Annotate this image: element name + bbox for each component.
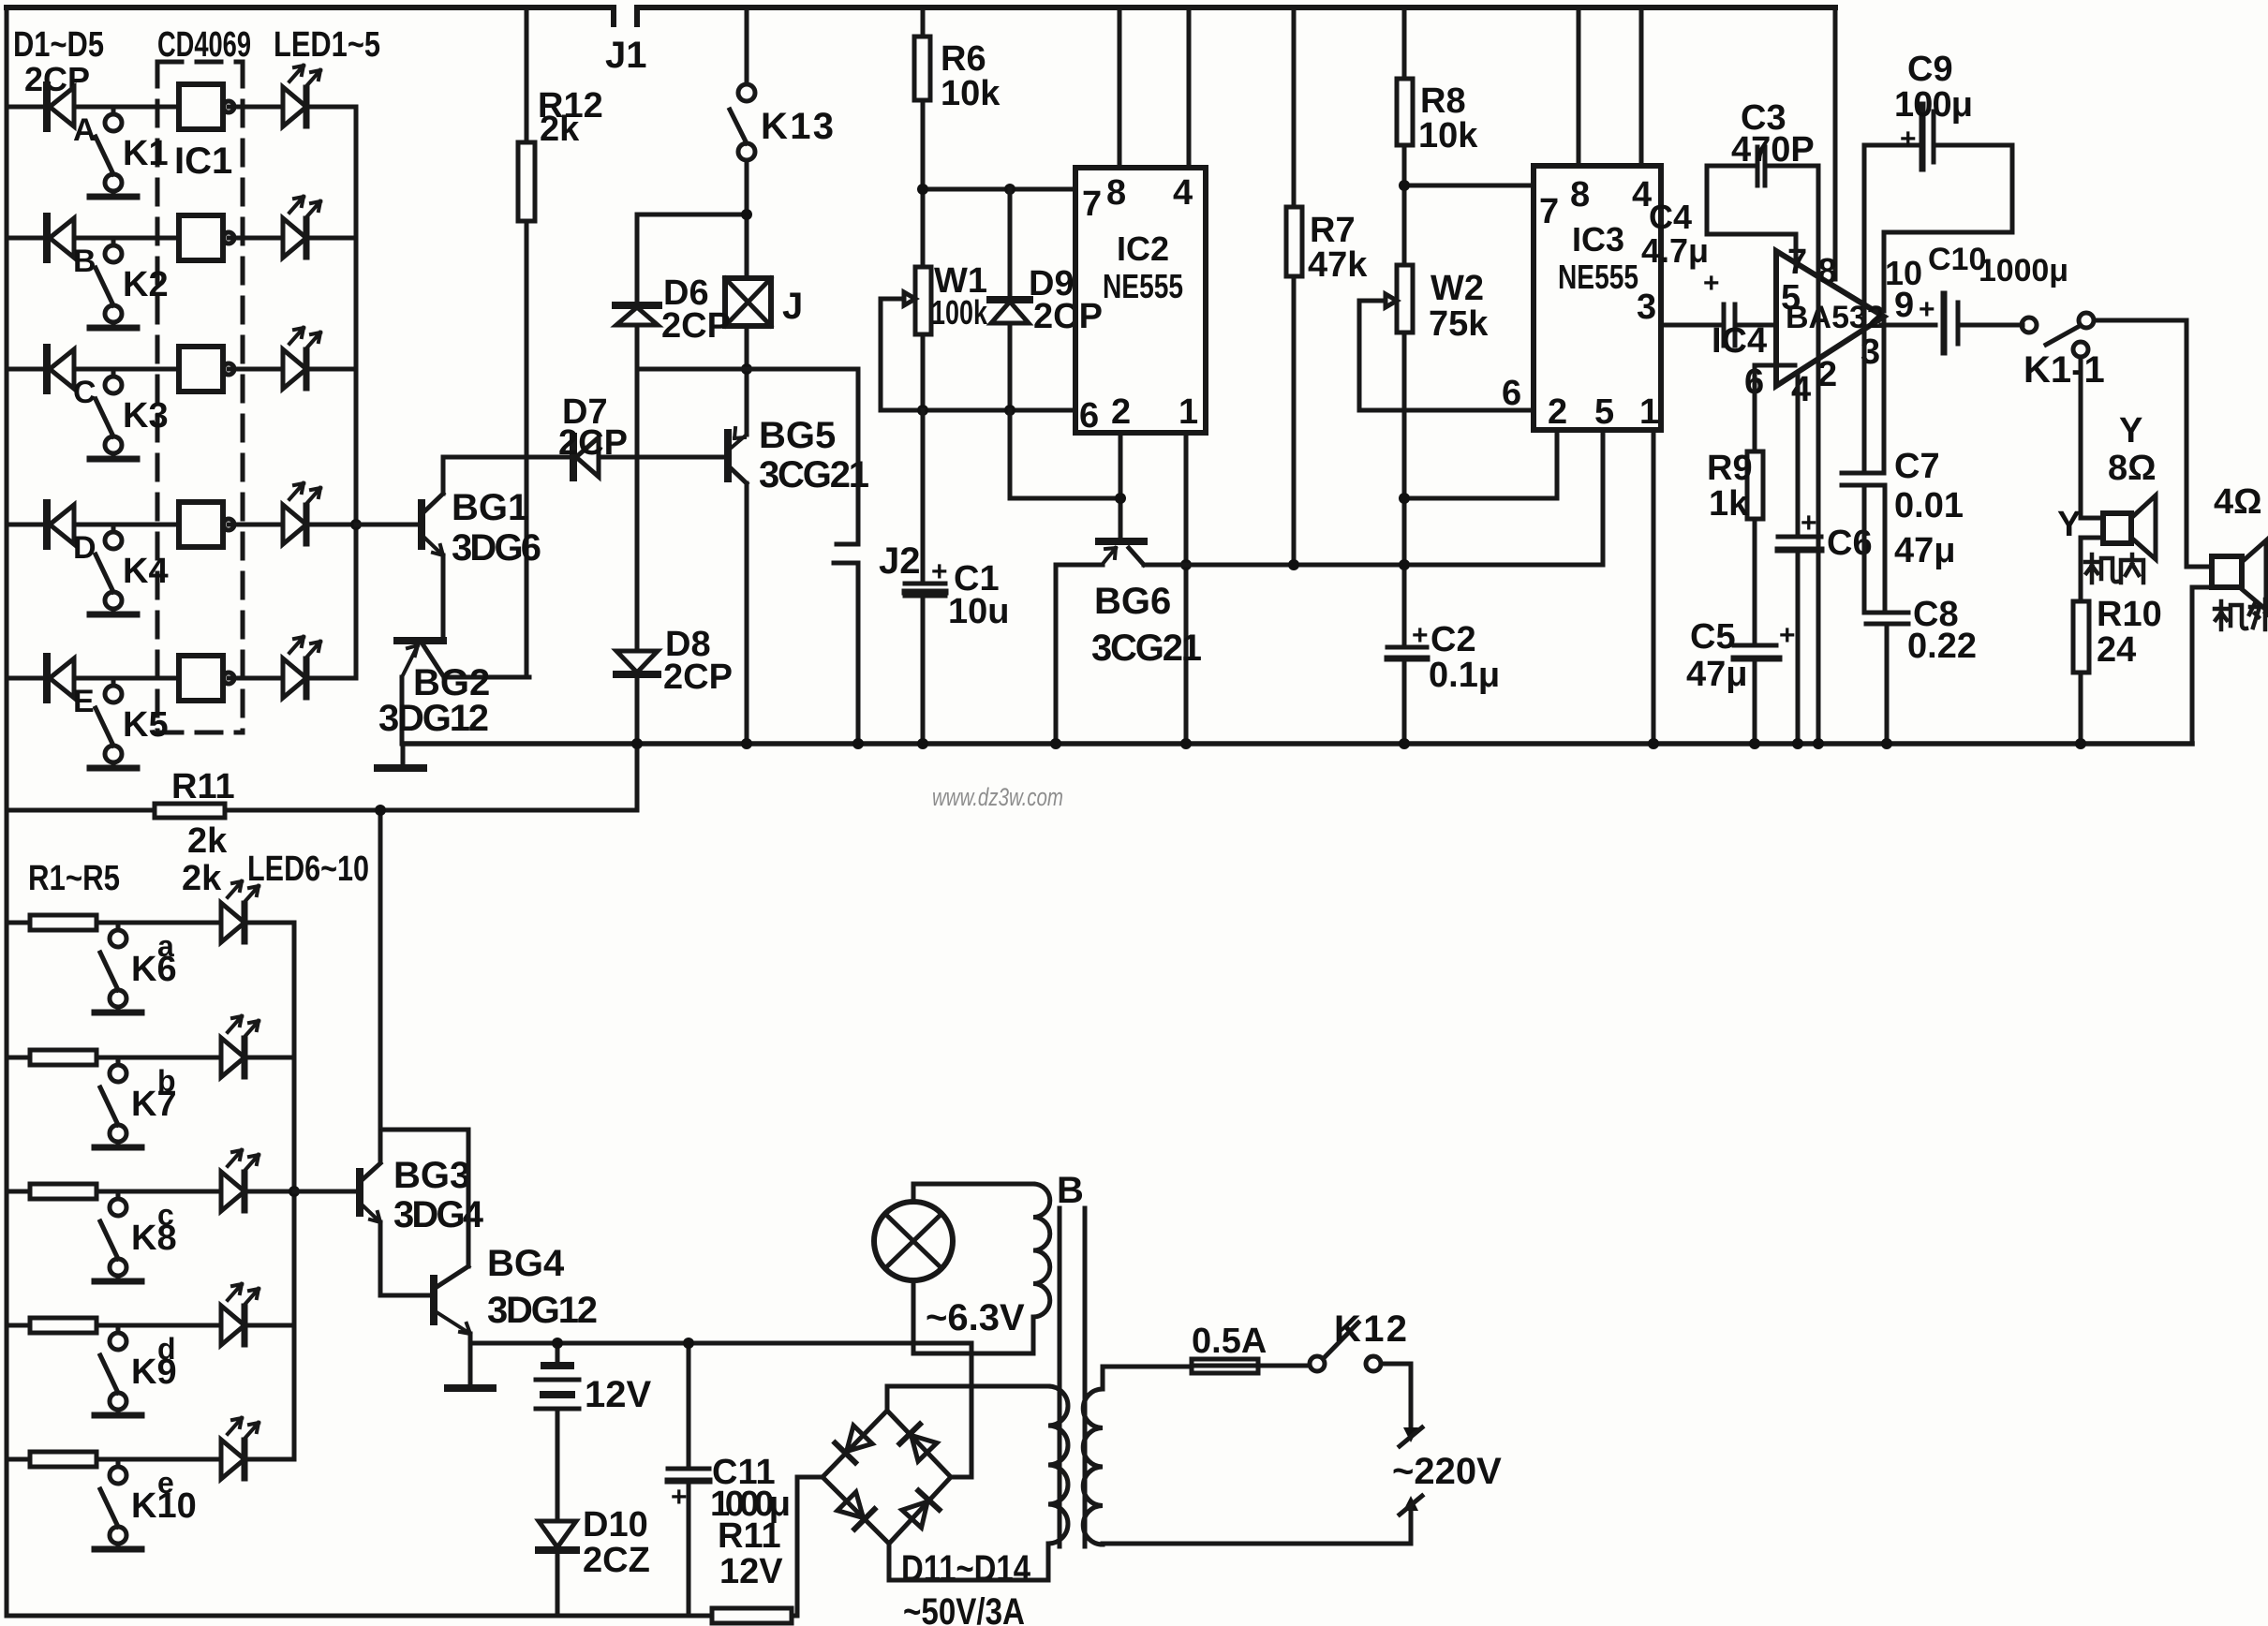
svg-text:a: a (157, 929, 174, 963)
relay coil J (725, 278, 771, 326)
svg-text:J2: J2 (879, 540, 921, 582)
LED9 (221, 1284, 259, 1345)
switch K4 (90, 525, 137, 614)
wire top rail drop to BA532 pin8 (1833, 7, 1838, 279)
svg-text:3CG21: 3CG21 (1091, 628, 1202, 669)
svg-text:K13: K13 (761, 106, 834, 147)
capacitor C11 1000u (687, 1343, 691, 1469)
capacitor C2 0.1u (1387, 647, 1427, 744)
transistor BG6 3CG21 (1099, 538, 1144, 545)
LED8 (221, 1150, 259, 1211)
wire LED6-10 bus (292, 923, 297, 1459)
potentiometer W2 75k (1397, 265, 1413, 333)
svg-text:D1~D5: D1~D5 (13, 25, 104, 65)
svg-text:C5: C5 (1690, 617, 1736, 657)
transistor BG2 3DG12 (397, 637, 443, 644)
svg-text:4Ω: 4Ω (2214, 482, 2262, 522)
svg-text:A: A (73, 112, 96, 148)
svg-text:2CP: 2CP (661, 306, 731, 346)
svg-text:D11~D14: D11~D14 (901, 1548, 1031, 1589)
LED3 (283, 328, 320, 389)
svg-text:1000μ: 1000μ (1979, 253, 2068, 288)
svg-text:K5: K5 (123, 705, 169, 745)
LED10 (221, 1418, 259, 1479)
svg-text:7: 7 (1539, 192, 1559, 231)
wire IC4 pin9 out (1881, 323, 1935, 328)
wire K1-1 to outer speaker (2094, 320, 2212, 567)
svg-text:12V: 12V (719, 1552, 783, 1591)
diode D12 (899, 1425, 937, 1462)
svg-text:0.01: 0.01 (1894, 486, 1964, 525)
svg-text:K3: K3 (123, 396, 169, 436)
wire D6 bottom row (637, 325, 858, 369)
svg-text:R9: R9 (1707, 449, 1753, 488)
svg-text:c: c (157, 1198, 174, 1232)
op-amp U1 IC4 BA532 (1776, 251, 1884, 386)
wire row A (7, 105, 356, 110)
switch K3 (90, 369, 137, 459)
wire row e (7, 1457, 294, 1462)
switch K10 (95, 1459, 141, 1549)
op-amp U IC2 NE555 box (1075, 168, 1206, 433)
transformer winding 50V (1048, 1386, 1068, 1544)
wire row a (7, 921, 294, 925)
LED7 (221, 1016, 259, 1077)
svg-text:5: 5 (1594, 392, 1614, 432)
svg-text:D: D (73, 530, 96, 566)
speaker 4ohm outer (2212, 556, 2242, 587)
svg-text:12V: 12V (585, 1374, 651, 1415)
svg-text:~220V: ~220V (1392, 1451, 1502, 1492)
zener R11 12V (712, 1608, 792, 1623)
svg-text:LED6~10: LED6~10 (247, 850, 369, 889)
speaker Y 8ohm inner (2103, 513, 2131, 543)
wire row c (7, 1190, 294, 1194)
svg-text:www.dz3w.com: www.dz3w.com (932, 783, 1063, 811)
capacitor C5 47u (1734, 643, 1776, 648)
svg-text:10u: 10u (948, 592, 1009, 631)
diode D5 (47, 657, 74, 700)
svg-text:+: + (1412, 620, 1429, 651)
wire IC3 pin3 out (1661, 323, 1724, 328)
svg-text:4: 4 (1791, 370, 1811, 409)
svg-text:2CP: 2CP (663, 658, 733, 697)
diode D2 (47, 216, 74, 259)
resistor R6 10k (921, 7, 926, 267)
switch K9 (95, 1325, 141, 1415)
svg-text:K2: K2 (123, 265, 169, 304)
inverter gate row C (179, 347, 234, 392)
wire row D (7, 523, 356, 527)
wire row E (7, 676, 356, 681)
wire rail end to outer speaker (2192, 587, 2212, 744)
LED6 (221, 881, 259, 942)
switch K13 (745, 7, 749, 84)
svg-text:J: J (782, 286, 803, 327)
diode D14 (901, 1491, 939, 1529)
potentiometer W1 100k (915, 267, 931, 334)
diode D9 (1008, 189, 1013, 300)
IC1 dashed box (157, 62, 243, 732)
wire row C (7, 367, 356, 372)
op-amp U IC3 NE555 box (1534, 166, 1661, 430)
wire primary top to fuse (1103, 1367, 1192, 1389)
svg-text:CD4069: CD4069 (157, 25, 251, 65)
transistor BG3 3DG4 (356, 1172, 363, 1213)
wire D6 loop top (637, 214, 747, 305)
svg-text:K4: K4 (123, 552, 169, 591)
svg-text:47μ: 47μ (1686, 655, 1748, 694)
wire BG1 collector to D7 (443, 455, 573, 460)
svg-text:470P: 470P (1731, 130, 1815, 170)
wire bridge bottom to 50V winding (889, 1544, 1048, 1580)
svg-text:e: e (157, 1466, 174, 1500)
switch K7 (95, 1057, 141, 1147)
inverter gate row E (179, 656, 234, 701)
wire left border (5, 7, 9, 1616)
switch K6 (95, 923, 141, 1013)
svg-text:3DG6: 3DG6 (452, 527, 541, 569)
wire BG3 collector loop to BG4 (380, 1130, 468, 1266)
svg-text:3DG12: 3DG12 (378, 698, 489, 739)
label inner speaker (2085, 554, 2143, 583)
switch K5 (90, 678, 137, 768)
wire bottom border (7, 1614, 712, 1619)
svg-text:+: + (931, 556, 948, 587)
svg-text:2: 2 (1111, 392, 1131, 432)
wire row d (7, 1323, 294, 1328)
svg-text:Y: Y (2057, 505, 2081, 544)
svg-text:BG1: BG1 (452, 487, 528, 528)
resistor R4 2k (30, 1318, 96, 1333)
wire 12V supply rail (470, 1341, 971, 1346)
svg-text:9: 9 (1894, 286, 1914, 325)
svg-text:2k: 2k (187, 821, 228, 861)
fuse 0.5A (1192, 1359, 1258, 1373)
wire IC4 pin2 vertical (1816, 166, 1821, 744)
svg-text:5: 5 (1781, 278, 1801, 318)
svg-text:24: 24 (2097, 630, 2136, 670)
svg-text:6: 6 (1079, 396, 1099, 436)
svg-text:4: 4 (1173, 173, 1193, 213)
wire IC3 pin6 net (1359, 408, 1534, 413)
capacitor J2 jack (834, 369, 858, 744)
plug 220V upper prong (1381, 1364, 1411, 1431)
wire R11 to BG3 collector (378, 810, 383, 1161)
inverter gate row A (179, 84, 234, 129)
svg-text:47μ: 47μ (1894, 531, 1956, 570)
svg-text:2k: 2k (182, 859, 222, 898)
svg-text:+: + (1900, 124, 1917, 155)
svg-text:1: 1 (1639, 392, 1659, 432)
transformer core B (1060, 1208, 1085, 1546)
diode D4 (47, 503, 74, 546)
wire IC3 pin8 to rail (1577, 7, 1581, 166)
capacitor C3 470P loop (1707, 166, 1796, 264)
svg-text:B: B (1057, 1170, 1084, 1211)
wire LED cathode bus (354, 107, 359, 678)
svg-text:NE555: NE555 (1558, 258, 1638, 296)
svg-text:6: 6 (1502, 374, 1521, 413)
wire top rail right of J1 gap (637, 7, 1835, 24)
svg-text:b: b (157, 1064, 176, 1098)
wire bridge top to 50V winding (887, 1386, 1048, 1411)
wire lamp loop (913, 1184, 1033, 1353)
svg-text:3: 3 (1637, 288, 1656, 327)
wire IC4 pin6 to R9 (1755, 365, 1795, 451)
capacitor C8 0.22 (1866, 613, 1908, 624)
resistor R1 2k (30, 915, 96, 930)
resistor R3 2k (30, 1184, 96, 1199)
battery 12V (556, 1343, 560, 1366)
wire IC3 pin5 to BG6 collector net (1601, 430, 1606, 565)
wire IC3 pin1 to ground (1652, 430, 1656, 744)
capacitor C6 47u (1796, 375, 1801, 537)
svg-text:C: C (73, 375, 96, 410)
LED2 (283, 197, 320, 258)
svg-text:BG3: BG3 (393, 1155, 470, 1196)
svg-text:10k: 10k (941, 74, 1001, 113)
svg-text:BG6: BG6 (1094, 581, 1171, 622)
svg-text:C2: C2 (1430, 620, 1476, 659)
svg-text:0.5A: 0.5A (1192, 1322, 1267, 1361)
svg-text:K1: K1 (123, 134, 169, 173)
svg-text:3CG21: 3CG21 (759, 454, 869, 495)
svg-text:2CZ: 2CZ (583, 1541, 650, 1580)
wire IC2 pin6/2 net (881, 408, 1075, 413)
wire K1-1 lower to inner speaker (2081, 357, 2103, 518)
svg-text:R10: R10 (2097, 595, 2162, 634)
inverter gate row B (179, 215, 234, 260)
wire IC2 pin7 net (923, 187, 1075, 192)
svg-text:2: 2 (1548, 392, 1567, 432)
resistor R11 2k (7, 808, 637, 813)
LED1 (283, 66, 320, 126)
svg-text:IC2: IC2 (1117, 229, 1169, 268)
wire inner speaker to R10 (2081, 538, 2103, 601)
resistor R5 2k (30, 1452, 96, 1467)
svg-text:BG4: BG4 (487, 1243, 565, 1284)
svg-text:2CP: 2CP (1033, 297, 1103, 336)
resistor R7 47k (1292, 7, 1297, 565)
svg-text:J1: J1 (605, 35, 647, 76)
wire IC2 pin8 to rail (1118, 7, 1122, 168)
svg-text:4.7μ: 4.7μ (1641, 231, 1709, 270)
diode D8 (635, 369, 640, 651)
wire supply to bridge right corner (951, 1343, 971, 1477)
wire IC2 pin4 to rail (1187, 7, 1192, 168)
svg-text:IC4: IC4 (1712, 321, 1767, 361)
switch K2 (90, 238, 137, 328)
svg-text:~50V/3A: ~50V/3A (903, 1591, 1025, 1626)
svg-text:E: E (73, 684, 95, 719)
wire IC3 pin2 link (1404, 430, 1557, 498)
label outer speaker (2215, 599, 2268, 629)
transistor BG1 3DG6 (418, 503, 425, 546)
resistor R12 2k (525, 7, 529, 677)
resistor R2 2k (30, 1050, 96, 1065)
lamp 6.3V (874, 1202, 953, 1280)
wire ground rail upper section (403, 741, 2192, 746)
svg-text:~6.3V: ~6.3V (926, 1297, 1025, 1338)
svg-text:8Ω: 8Ω (2108, 449, 2157, 488)
wire row b (7, 1056, 294, 1060)
svg-text:100k: 100k (931, 293, 988, 332)
svg-text:2CP: 2CP (24, 60, 90, 98)
wire R11 right to bridge left (792, 1477, 823, 1616)
capacitor C10 1000u (1941, 294, 1948, 352)
svg-text:d: d (157, 1332, 176, 1366)
svg-text:R8: R8 (1420, 81, 1466, 121)
transformer winding 6.3V (1033, 1184, 1050, 1317)
svg-text:0.22: 0.22 (1907, 627, 1977, 666)
svg-text:C7: C7 (1894, 447, 1940, 486)
svg-text:R11: R11 (718, 1516, 781, 1556)
wire row B (7, 236, 356, 241)
ground symbol under BG2 (401, 744, 406, 766)
svg-text:IC3: IC3 (1572, 220, 1624, 259)
svg-text:C4: C4 (1649, 198, 1692, 236)
resistor R9 1k (1747, 451, 1763, 519)
svg-text:BG5: BG5 (759, 415, 836, 456)
LED4 (283, 483, 320, 544)
svg-text:R1~R5: R1~R5 (28, 859, 120, 898)
diode D11 (835, 1425, 872, 1462)
wire IC3 pin7 net (1404, 184, 1534, 188)
svg-text:+: + (1801, 508, 1817, 539)
svg-text:3DG12: 3DG12 (487, 1290, 598, 1331)
ground symbol BG4 emitter (468, 1343, 473, 1386)
svg-text:R6: R6 (941, 39, 986, 79)
bridge rectifier D11~D14 (823, 1411, 951, 1544)
svg-text:NE555: NE555 (1103, 267, 1183, 305)
plug 220V lower prong (1403, 1496, 1418, 1511)
svg-text:+: + (671, 1482, 688, 1513)
diode D10 2CZ (539, 1521, 576, 1547)
svg-text:+: + (1779, 620, 1796, 651)
svg-text:2k: 2k (540, 110, 580, 149)
capacitor C7 0.01 (1882, 317, 1887, 473)
diode D13 (837, 1491, 874, 1529)
diode D7 (570, 436, 577, 478)
diode D1 (47, 85, 74, 128)
svg-text:C9: C9 (1907, 50, 1953, 89)
svg-text:47k: 47k (1308, 245, 1368, 285)
svg-text:2CP: 2CP (558, 423, 628, 463)
switch K1 (90, 107, 137, 197)
svg-text:0.1μ: 0.1μ (1429, 656, 1500, 695)
capacitor C4 4.7u (1724, 304, 1776, 346)
svg-text:LED1~5: LED1~5 (274, 25, 380, 65)
svg-text:100μ: 100μ (1894, 85, 1973, 125)
diode D6 (615, 302, 659, 309)
svg-text:K1-1: K1-1 (2023, 349, 2105, 391)
svg-text:8: 8 (1570, 175, 1590, 214)
svg-text:B: B (73, 244, 96, 279)
capacitor C9 100u loop (1864, 143, 2012, 148)
svg-text:8: 8 (1106, 173, 1126, 213)
svg-text:1k: 1k (1709, 484, 1749, 524)
inverter gate row D (179, 502, 234, 547)
svg-text:+: + (1703, 268, 1720, 299)
resistor R8 10k (1402, 7, 1407, 265)
LED5 (283, 637, 320, 698)
svg-text:IC1: IC1 (174, 140, 232, 182)
wire J bottom to BG5 emitter (745, 326, 749, 435)
wire IC2 pin1 to ground (1184, 433, 1189, 744)
transformer winding primary 220V (1083, 1389, 1103, 1545)
svg-text:K12: K12 (1334, 1308, 1407, 1350)
switch K8 (95, 1191, 141, 1281)
wire BG3 base (294, 1190, 360, 1194)
wire IC2 pin2 link (1010, 410, 1120, 541)
svg-text:R11: R11 (171, 767, 235, 806)
switch K1-1 (2022, 318, 2037, 333)
svg-text:1: 1 (1178, 392, 1198, 432)
svg-text:R7: R7 (1310, 211, 1356, 250)
capacitor C1 10u (905, 410, 945, 744)
svg-text:D10: D10 (583, 1505, 648, 1545)
svg-text:7: 7 (1082, 185, 1102, 224)
transistor BG5 3CG21 (724, 433, 732, 479)
svg-text:W2: W2 (1430, 269, 1484, 308)
svg-text:+: + (1919, 294, 1935, 325)
svg-text:Y: Y (2119, 411, 2142, 451)
wire BG1 base (356, 523, 422, 527)
svg-text:75k: 75k (1429, 304, 1489, 344)
wire top rail left of J1 gap (7, 7, 614, 24)
svg-text:10k: 10k (1418, 116, 1478, 155)
transistor BG4 3DG12 (430, 1279, 437, 1322)
switch K12 (1258, 1364, 1310, 1368)
wire IC3 pin4 to rail (1639, 7, 1644, 166)
diode D3 (47, 347, 74, 391)
resistor R10 24 (2073, 601, 2089, 673)
